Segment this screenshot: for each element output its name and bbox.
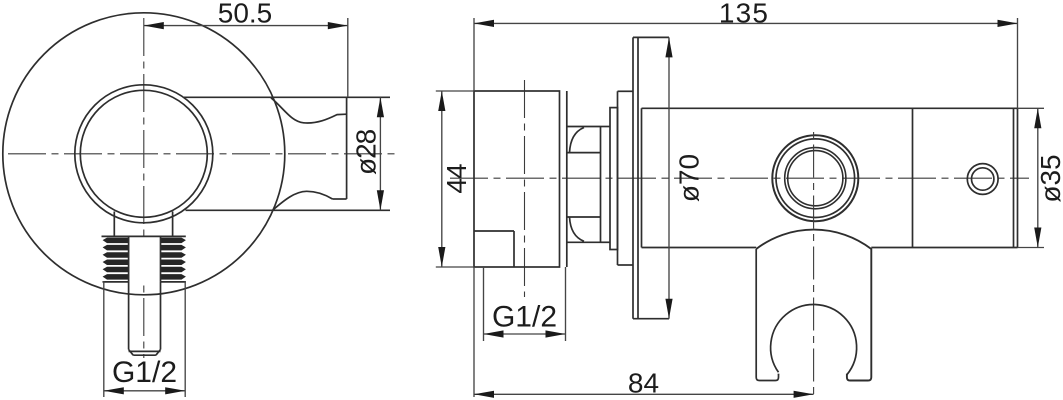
dimension G1/2 arrow right: [165, 387, 185, 394]
dimension 50.5 ext right: [347, 18, 349, 97]
pivot ring third: [785, 148, 846, 209]
collar top edge: [618, 90, 634, 92]
dimension dia28 arrow top: [377, 97, 384, 117]
outlet ring outer: [75, 85, 213, 223]
dimension dia28 arrow bottom: [377, 190, 384, 210]
cylinder left face: [641, 108, 643, 247]
dimension dia35 ext bottom: [1018, 247, 1045, 249]
dimension 44 line: [441, 91, 443, 267]
wall plate bottom edge: [633, 318, 669, 320]
pipe left wall: [128, 282, 130, 350]
hex nut bottom edge: [567, 241, 601, 243]
pivot ring inner: [788, 151, 843, 206]
dimension 84 line: [474, 393, 814, 395]
cylinder end face: [1017, 108, 1019, 247]
dimension G1/2b ext left: [483, 267, 485, 341]
holder bottom edge: [186, 209, 391, 211]
centerline valve vertical: [524, 80, 526, 297]
pipe chamfer left: [129, 350, 134, 356]
valve body outline: [474, 91, 560, 267]
dimension 44 ext top: [436, 90, 474, 92]
hex nut right edge: [600, 127, 602, 243]
hex nut facet bottom: [567, 216, 601, 218]
dimension dia35 ext top: [1018, 107, 1045, 109]
fork outline left leg: [756, 249, 778, 381]
svg-text:84: 84: [628, 368, 659, 399]
hex nut top edge: [567, 126, 601, 128]
dimension 44 ext bottom: [436, 266, 474, 268]
dimension 135 ext left lower: [473, 267, 475, 397]
washer outline: [610, 108, 618, 250]
dimension 135 ext right: [1017, 18, 1019, 108]
svg-text:G1/2: G1/2: [492, 301, 557, 334]
cylinder bottom edge left: [642, 247, 757, 249]
dimension 44 arrow bottom: [438, 247, 445, 267]
pivot ring outer: [772, 135, 858, 221]
escutcheon disc circle: [3, 13, 285, 295]
dimension dia70 line: [668, 37, 670, 318]
thread area mask: [103, 237, 159, 281]
collar bottom edge: [618, 264, 634, 266]
cylinder bottom edge right: [871, 247, 1017, 249]
dimension dia35 line: [1037, 108, 1039, 247]
centerline vertical left view: [143, 18, 145, 358]
pivot ring second: [776, 139, 855, 218]
pipe right wall: [160, 282, 162, 350]
fork outline: [756, 230, 871, 381]
pipe chamfer line: [129, 350, 161, 352]
pipe end face: [133, 354, 156, 356]
dimension G1/2b arrow right: [546, 330, 566, 337]
dimension 84 arrow right: [794, 391, 814, 398]
svg-text:135: 135: [719, 0, 769, 28]
dimension G1/2b ext right: [565, 267, 567, 341]
screw hole outer: [967, 164, 998, 195]
dimension 50.5 line: [144, 25, 348, 27]
wall plate top edge: [633, 36, 669, 38]
fork toe right: [846, 373, 848, 376]
thread G1/2 crest bands: [103, 238, 186, 280]
dimension 84 arrow left: [474, 391, 494, 398]
fork toe left: [778, 373, 780, 376]
collar right vertical: [617, 91, 619, 265]
wall plate back face: [637, 37, 639, 318]
outlet neck right wall: [172, 212, 174, 237]
hex nut facet top: [567, 152, 601, 154]
dimension dia35 arrow top: [1034, 108, 1041, 128]
dimension G1/2 ext right: [184, 281, 186, 397]
thread channel right wall: [160, 236, 162, 282]
fork centerline: [813, 132, 815, 397]
dimension dia70 arrow bottom: [665, 299, 672, 319]
dimension 135 ext left: [473, 18, 475, 91]
thread bottom edge right: [161, 281, 186, 283]
cylinder end cap line: [1013, 108, 1015, 247]
centerline horizontal left view: [8, 153, 396, 155]
dimension G1/2b arrow left: [484, 330, 504, 337]
dimension G1/2 arrow left: [104, 387, 124, 394]
screw hole inner: [972, 168, 994, 190]
dimension G1/2 ext left: [103, 281, 105, 397]
holder neck bottom curve: [273, 191, 333, 210]
valve body step horizontal: [474, 230, 514, 232]
valve body right face line: [566, 91, 568, 267]
dimension 44 arrow top: [438, 91, 445, 111]
centerline horizontal right view: [450, 177, 1029, 179]
cylinder top edge: [642, 107, 1018, 109]
thread top edge: [102, 235, 186, 237]
dimension dia35 arrow bottom: [1034, 228, 1041, 248]
hex nut chamfer arc bottom: [570, 217, 585, 241]
wall plate front face: [632, 37, 634, 318]
svg-text:50.5: 50.5: [218, 0, 273, 29]
cylinder joint line: [912, 108, 914, 247]
stem bottom edge: [601, 241, 611, 243]
dimension G1/2b line: [484, 333, 566, 335]
outlet neck left wall: [113, 212, 115, 237]
dimension dia70 arrow top: [665, 37, 672, 57]
svg-text:ø28: ø28: [350, 129, 381, 175]
holder neck top curve: [271, 98, 347, 123]
holder top edge: [184, 96, 390, 98]
dimension 135 arrow right: [998, 20, 1018, 27]
dimension dia28 line: [379, 97, 381, 210]
valve body step vertical: [513, 231, 515, 267]
dimension 50.5 arrow left: [144, 22, 164, 29]
hex nut chamfer arc top: [570, 128, 585, 153]
dimension G1/2 line: [104, 390, 185, 392]
dimension 50.5 arrow right: [328, 22, 348, 29]
holder bottom lip: [333, 198, 347, 200]
svg-text:ø70: ø70: [674, 154, 705, 202]
dimension 135 arrow left: [474, 20, 494, 27]
thread channel left wall: [128, 236, 130, 282]
outlet ring inner: [80, 90, 207, 217]
pipe chamfer right: [156, 350, 161, 356]
stem top edge: [601, 126, 611, 128]
svg-text:44: 44: [441, 164, 472, 194]
fork clamp arc: [771, 304, 857, 374]
svg-text:ø35: ø35: [1035, 154, 1063, 202]
dimension 135 line: [474, 22, 1018, 24]
holder right edge: [346, 97, 348, 199]
thread bottom edge left: [103, 281, 129, 283]
svg-text:G1/2: G1/2: [112, 356, 177, 389]
